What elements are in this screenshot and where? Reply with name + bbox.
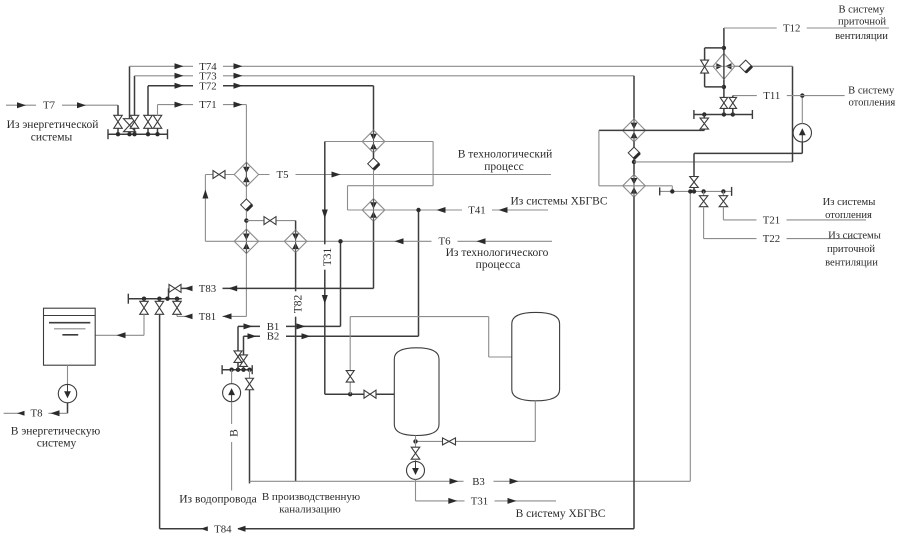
- wire bypass W6 left: [598, 130, 600, 185]
- svg-text:приточной: приточной: [827, 244, 875, 255]
- valve V10: [158, 299, 160, 302]
- heat exchanger W7: [623, 175, 646, 198]
- node elevator bottom: [722, 85, 726, 89]
- valve V20: [690, 177, 699, 188]
- svg-text:Из системы: Из системы: [823, 197, 876, 208]
- label B3: [464, 476, 494, 488]
- manifold M2 left cap: [127, 294, 129, 304]
- valve V2 main: [129, 132, 131, 135]
- svg-text:Т81: Т81: [199, 311, 216, 323]
- label T6: [432, 235, 458, 247]
- wire B1: [238, 325, 341, 327]
- flow arrow T5: [332, 172, 341, 178]
- wire pump return: [693, 153, 695, 177]
- flow arrow T31 out a: [448, 498, 457, 504]
- flow arrow T74 b: [234, 63, 243, 69]
- valve V21: [703, 115, 705, 119]
- pump N4: [793, 124, 811, 142]
- heat exchanger W5: [362, 199, 385, 222]
- svg-text:Т82: Т82: [293, 294, 305, 313]
- wire W5 down to T83: [373, 221, 375, 288]
- svg-text:В производственную: В производственную: [262, 491, 360, 503]
- check valve K2: [368, 158, 380, 170]
- wire B2: [244, 335, 419, 337]
- valve V12: [234, 351, 242, 363]
- svg-text:В2: В2: [267, 331, 280, 343]
- svg-text:Т11: Т11: [763, 90, 780, 102]
- wire to pump N3: [415, 459, 417, 461]
- flow arrow T41 b: [499, 207, 508, 213]
- svg-text:В систему ХБГВС: В систему ХБГВС: [516, 508, 606, 520]
- check valve K1: [245, 187, 247, 199]
- manifold M4: [694, 114, 753, 116]
- label T81: [193, 311, 223, 323]
- wire B2 to T41: [418, 210, 420, 336]
- valve V16: [346, 371, 354, 383]
- valve V15 on T31: [364, 390, 376, 398]
- valve V22: [723, 87, 725, 98]
- manifold M3 right cap: [251, 365, 253, 374]
- svg-text:В технологический: В технологический: [458, 148, 553, 160]
- node T11 tap: [800, 93, 804, 97]
- wire T72 drop: [373, 86, 375, 131]
- svg-text:Из системы: Из системы: [828, 231, 881, 242]
- svg-text:Т22: Т22: [763, 233, 780, 245]
- wire T12: [724, 27, 889, 29]
- heat exchanger W2: [234, 229, 258, 253]
- wire B1 to T6: [340, 241, 342, 326]
- wire T31 out: [415, 479, 417, 501]
- valve V6 bypass: [205, 174, 234, 176]
- wire tank crossover: [416, 440, 536, 442]
- label T74: [193, 61, 223, 73]
- wire through W7: [599, 185, 672, 187]
- wire T74: [130, 65, 793, 67]
- wire K2 to W5: [373, 170, 375, 199]
- label T12: [777, 22, 807, 34]
- label T21: [757, 214, 787, 226]
- svg-text:Т83: Т83: [199, 283, 216, 295]
- svg-text:Из энергетической: Из энергетической: [7, 119, 99, 131]
- wire node A to T82 column: [246, 220, 295, 222]
- wire drain: [249, 390, 251, 484]
- wire V21 to W6: [703, 129, 705, 130]
- flow arrow T81 a: [184, 313, 193, 319]
- wire T12 column: [723, 28, 725, 54]
- wire to node A: [245, 211, 247, 230]
- wire drain stub: [249, 370, 251, 379]
- wire T84: [160, 528, 634, 530]
- wire tank outlet: [67, 365, 69, 384]
- node B1-T6: [338, 239, 342, 243]
- wire T5: [259, 174, 551, 176]
- flow arrow bypass up: [202, 190, 208, 199]
- wire T31 vertical: [324, 142, 326, 395]
- wire T73: [135, 75, 635, 77]
- svg-text:приточной: приточной: [838, 16, 886, 27]
- label T5: [270, 169, 296, 181]
- wire T84 riser: [159, 314, 161, 529]
- junction dots manifold M3: [229, 368, 233, 372]
- tank B2 water heater: [394, 348, 439, 436]
- manifold M1 right cap: [167, 129, 169, 139]
- heat exchanger W1: [234, 162, 258, 186]
- wire B2 riser: [243, 336, 245, 370]
- junction dots manifold M1: [116, 132, 120, 136]
- valve V14: [246, 378, 254, 390]
- manifold M4 right cap: [751, 110, 753, 119]
- wire T71: [158, 104, 247, 106]
- node B2-T41: [416, 208, 420, 212]
- svg-text:Т12: Т12: [783, 22, 800, 34]
- wire tank B2 outlet: [415, 436, 417, 447]
- valve V18: [703, 191, 705, 196]
- wire T83: [182, 287, 374, 289]
- svg-text:В систему: В систему: [848, 85, 895, 96]
- wire T31 to tank: [325, 393, 395, 395]
- check valve K5: [740, 60, 752, 72]
- wire T73 drop: [633, 76, 635, 119]
- valve V11: [176, 299, 178, 302]
- wire collector riser: [689, 191, 691, 481]
- check valve K4: [628, 147, 640, 159]
- svg-text:В3: В3: [472, 476, 485, 488]
- junction line J1: [660, 190, 732, 192]
- heat exchanger W4: [362, 130, 385, 153]
- flow arrow T31 down b: [322, 295, 328, 304]
- junction dots manifold M2: [142, 297, 146, 301]
- wire T11: [733, 95, 845, 97]
- valve V5: [153, 115, 162, 128]
- svg-text:вентиляции: вентиляции: [835, 31, 888, 42]
- flow arrow T83 a: [184, 285, 193, 291]
- wire tank inlet: [143, 314, 145, 335]
- valve V23: [732, 96, 734, 98]
- wire pump B suction: [231, 370, 233, 384]
- label T8: [25, 408, 49, 420]
- wire T6: [205, 240, 552, 242]
- valve V17: [411, 447, 420, 459]
- junction dots manifold M4: [702, 112, 706, 116]
- wire B from waterline: [231, 402, 233, 491]
- wire K4 to node C: [633, 159, 635, 175]
- flow arrow B1 a: [244, 323, 253, 329]
- wire T71 drop to HX1: [245, 105, 247, 164]
- manifold M1: [108, 133, 168, 135]
- node tank B2 outlet: [413, 439, 417, 443]
- valve V7: [264, 217, 276, 225]
- pump N3: [407, 461, 425, 479]
- flow arrow T7 a: [17, 102, 26, 108]
- label T31 vertical: [319, 244, 334, 269]
- valve V19: [722, 191, 724, 196]
- manifold M1 left cap: [107, 129, 109, 139]
- junction dots J1: [670, 189, 674, 193]
- wire T84 column: [633, 197, 635, 529]
- wire T21: [722, 207, 724, 220]
- node C: [632, 160, 636, 164]
- wire pump suction: [801, 96, 803, 124]
- label T83: [193, 283, 223, 295]
- label B: [226, 424, 241, 442]
- svg-text:Т72: Т72: [199, 80, 216, 92]
- svg-text:системы: системы: [31, 131, 73, 143]
- valve V3: [130, 115, 139, 128]
- valve V9: [143, 299, 145, 302]
- wire T74 riser: [129, 66, 131, 119]
- wire T73 riser: [134, 76, 136, 116]
- manifold M3 left cap: [221, 365, 223, 374]
- flow arrow T73 a: [175, 73, 184, 79]
- label T71: [193, 99, 223, 111]
- label T11: [757, 90, 787, 102]
- flow arrow T7 b: [77, 102, 86, 108]
- label B1: [260, 321, 286, 333]
- flow arrow T31 out b: [508, 498, 517, 504]
- svg-text:отопления: отопления: [848, 98, 895, 109]
- svg-text:Из системы ХБГВС: Из системы ХБГВС: [511, 196, 608, 208]
- valve V8 on T83: [169, 284, 181, 292]
- svg-text:Т7: Т7: [43, 99, 56, 111]
- flow arrow B2 b: [302, 333, 311, 339]
- flow arrow T71 a: [175, 102, 184, 108]
- manifold M2: [128, 298, 181, 300]
- svg-text:Т5: Т5: [277, 169, 289, 181]
- flow arrow T81 b: [223, 313, 232, 319]
- node elevator top: [722, 46, 726, 50]
- wire tank2 feed: [350, 316, 489, 318]
- wire node C to riser: [634, 161, 793, 163]
- tank B1 expansion: [44, 308, 96, 365]
- wire T82 column: [295, 253, 297, 482]
- flow arrow T84 b: [237, 526, 246, 532]
- wire T7 inlet: [6, 104, 118, 106]
- flow arrow T83 b: [228, 285, 237, 291]
- wire T41: [348, 209, 549, 211]
- label T82: [290, 291, 305, 316]
- flow arrow T72 b: [234, 83, 243, 89]
- svg-text:Т6: Т6: [439, 235, 452, 247]
- flow arrow tank inlet: [117, 332, 126, 338]
- node A: [244, 218, 248, 222]
- check valve K3: [443, 438, 456, 445]
- svg-text:В энергетическую: В энергетическую: [11, 425, 101, 437]
- label T31 out: [465, 495, 495, 507]
- svg-text:В систему: В систему: [838, 4, 885, 15]
- svg-text:Т31: Т31: [471, 495, 488, 507]
- flow arrow T41 a: [437, 207, 446, 213]
- flow arrow T71 b: [234, 102, 243, 108]
- svg-text:Т41: Т41: [468, 204, 485, 216]
- wire elevator return riser: [792, 66, 794, 162]
- wire T8: [67, 403, 69, 413]
- label T41: [462, 204, 492, 216]
- heat exchanger W3: [284, 230, 307, 253]
- flow arrow T84 a: [201, 526, 210, 532]
- valve V13: [240, 355, 248, 367]
- flow arrow T74 a: [175, 63, 184, 69]
- wire W7 jog: [671, 186, 673, 192]
- flow arrow B3 b: [510, 478, 519, 484]
- svg-text:Т8: Т8: [31, 408, 43, 420]
- svg-text:процесс: процесс: [484, 161, 523, 173]
- manifold M3: [222, 369, 252, 371]
- label T22: [757, 233, 787, 245]
- wire elevator bypass: [705, 47, 724, 49]
- wire to check K2: [373, 153, 375, 158]
- svg-text:Из технологического: Из технологического: [446, 247, 549, 259]
- svg-text:процесса: процесса: [476, 259, 521, 271]
- wire W6 to check K4: [633, 142, 635, 147]
- label T73: [193, 70, 223, 82]
- heat exchanger W6: [623, 119, 646, 142]
- junction J1 left cap: [659, 187, 661, 195]
- svg-text:Из водопровода: Из водопровода: [179, 494, 256, 506]
- svg-text:систему: систему: [37, 438, 77, 450]
- pump N1: [58, 384, 76, 402]
- svg-text:Т21: Т21: [763, 214, 780, 226]
- flow arrow B2 a: [248, 333, 257, 339]
- junction J1 right cap: [731, 187, 733, 196]
- wire collector: [250, 480, 691, 482]
- tank B3 water heater: [512, 312, 560, 400]
- flow arrow T6 a: [395, 238, 404, 244]
- valve V1: [114, 115, 123, 128]
- svg-text:канализацию: канализацию: [279, 504, 341, 516]
- label B2: [260, 331, 286, 343]
- flow arrow T73 b: [234, 73, 243, 79]
- label T84: [208, 523, 238, 535]
- wire elevator out: [735, 65, 793, 67]
- svg-text:Т84: Т84: [214, 523, 232, 535]
- wire T81: [176, 314, 178, 316]
- node T31-drain: [348, 392, 352, 396]
- flow arrow T8 a: [51, 410, 60, 416]
- wire T72 riser: [147, 86, 149, 116]
- flow arrow B3 a: [450, 478, 459, 484]
- flow arrow T31 down a: [322, 210, 328, 219]
- wire W2 outlet down: [245, 254, 247, 317]
- valve V4: [144, 115, 153, 128]
- wire through W6: [599, 129, 704, 131]
- elevator U1: [713, 53, 735, 79]
- wire T22: [703, 207, 705, 239]
- valve V24: [701, 60, 709, 73]
- wire tank2 feed riser: [349, 317, 351, 395]
- flow arrow T6 b: [477, 238, 486, 244]
- svg-text:Т71: Т71: [199, 99, 216, 111]
- wire V20 stem: [693, 188, 695, 192]
- label T72: [193, 80, 223, 92]
- wire T71 riser: [157, 105, 159, 116]
- manifold M4 left cap: [693, 110, 695, 119]
- wire bypass W4: [325, 141, 433, 143]
- wire pump discharge: [694, 152, 802, 154]
- svg-text:В: В: [229, 429, 241, 437]
- label T7: [36, 99, 62, 111]
- pump N2: [223, 384, 241, 402]
- svg-text:вентиляции: вентиляции: [825, 258, 878, 269]
- wire bypass left leg: [204, 175, 206, 242]
- wire T82 column top: [295, 221, 297, 231]
- flow arrow T8 b: [17, 410, 26, 416]
- wire B1 riser: [237, 326, 239, 369]
- flow arrow T72 a: [175, 83, 184, 89]
- flow arrow B1 b: [297, 323, 306, 329]
- svg-text:Т31: Т31: [322, 247, 334, 266]
- wire T72: [148, 85, 374, 87]
